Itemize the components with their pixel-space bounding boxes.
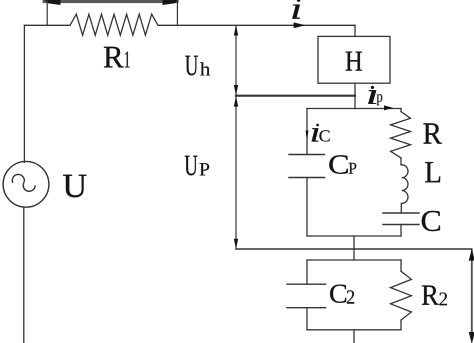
dimension extension line right	[176, 0, 178, 25]
label glyph ip-i-dot	[371, 86, 374, 89]
H box	[318, 36, 390, 83]
resistor R	[391, 112, 411, 158]
label glyph H	[346, 52, 362, 71]
label glyph UP-U	[185, 156, 198, 176]
wire C to bottom rail	[400, 225, 402, 237]
wire R2 branch bottom lead	[400, 320, 402, 330]
wire R to L	[400, 158, 402, 165]
Up arrow down	[234, 239, 238, 249]
wire R branch top lead	[400, 109, 402, 112]
label glyph UP-P	[200, 163, 210, 175]
capacitor C	[383, 213, 419, 225]
wire L to C	[400, 203, 402, 213]
wire C2R2 bottom rail	[307, 329, 401, 331]
dimension extension line left	[46, 0, 48, 25]
resistor R2	[391, 271, 412, 320]
wire H box top lead	[354, 25, 356, 36]
current arrow ip	[384, 105, 393, 110]
Uh dimension line	[235, 25, 237, 95]
label glyph iC-i-dot	[316, 124, 319, 126]
source U sine squiggle	[12, 174, 35, 191]
capacitor CP	[289, 155, 325, 178]
current arrow i	[294, 22, 306, 28]
label glyph ip-i-body	[368, 90, 376, 104]
wire RLC bottom rail	[307, 235, 401, 237]
dimension bar right arrowhead	[163, 0, 179, 5]
label glyph CP-C	[329, 155, 348, 173]
label glyph C2-2	[347, 290, 354, 303]
label glyph U-src	[63, 175, 86, 198]
Up arrow up	[234, 96, 238, 106]
label glyph R1-R	[104, 47, 124, 68]
label glyph R2-2	[439, 292, 447, 305]
label glyph CP-P	[349, 163, 357, 174]
label glyph Uh-h	[200, 62, 210, 75]
wire left vertical upper	[23, 25, 25, 162]
wire top-left horizontal	[24, 24, 70, 26]
label glyph R1-1	[125, 52, 130, 68]
wire R2 branch top lead	[400, 260, 402, 271]
label glyph ip-p	[377, 94, 383, 105]
label glyph R2-R	[422, 285, 439, 304]
right dimension line	[471, 249, 473, 334]
Uh arrow up	[234, 25, 238, 35]
node line Uh/Up junction	[236, 95, 355, 97]
label glyph i-top-dot	[297, 0, 300, 2]
wire Cp branch bottom	[306, 178, 308, 237]
dimension bar left arrowhead	[45, 0, 61, 5]
inductor L	[402, 165, 408, 204]
label glyph C-lbl	[422, 211, 440, 231]
wire RLC top rail	[307, 108, 401, 110]
wire C2 branch top	[306, 260, 308, 284]
label glyph C2-C	[330, 285, 346, 303]
wire H box bottom lead	[354, 83, 356, 108]
wire C2 branch bottom	[306, 308, 308, 330]
label glyph R-lbl	[423, 123, 442, 143]
label glyph iC-i-body	[312, 128, 319, 141]
right dimension arrow up	[469, 249, 474, 260]
source U circle	[3, 161, 49, 207]
wire left vertical lower	[23, 208, 25, 343]
label glyph iC-C	[319, 130, 329, 141]
label glyph i-top-body	[292, 5, 300, 19]
label glyph L-lbl	[425, 162, 440, 182]
label glyph Uh-U	[185, 56, 198, 76]
wire Cp branch top	[306, 109, 308, 155]
current arrow iC	[306, 131, 309, 141]
wire bottom stub	[353, 330, 355, 343]
Uh arrow down	[234, 85, 238, 95]
resistor R1	[70, 14, 158, 35]
dimension bar top shaft	[43, 0, 179, 3]
wire top middle	[158, 24, 355, 26]
node line Up bottom	[236, 248, 472, 250]
wire C2R2 top rail	[307, 259, 401, 261]
wire mid stub	[353, 236, 355, 260]
capacitor C2	[287, 284, 326, 308]
right dimension arrow down	[469, 332, 474, 343]
Up dimension line	[235, 96, 237, 249]
